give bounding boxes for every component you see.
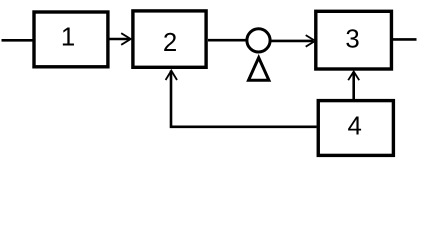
block 4 (318, 101, 393, 156)
feedback wire from block4 left to under block2 and up (171, 71, 317, 127)
wire block2 to circle (208, 39, 247, 42)
arrowhead into block 3 bottom (348, 72, 359, 81)
circle symbol (247, 29, 270, 52)
block 1 (34, 12, 108, 67)
arrowhead into block 3 left (306, 35, 316, 47)
arrowhead into block 2 bottom (166, 71, 177, 80)
wire input to block 1 (2, 39, 34, 42)
svg-text:4: 4 (348, 113, 362, 141)
wire output from block 3 (393, 38, 417, 41)
arrowhead into block 2 left (121, 33, 131, 45)
svg-text:3: 3 (345, 26, 359, 54)
block 2 (133, 11, 206, 67)
svg-text:1: 1 (61, 24, 75, 52)
wire block1 to block2 (109, 38, 130, 41)
block 3 (316, 11, 392, 69)
triangle symbol below circle (249, 58, 269, 81)
svg-text:2: 2 (163, 29, 177, 57)
wire circle to block 3 (271, 40, 313, 43)
wire block4 up to block 3 (352, 72, 355, 101)
